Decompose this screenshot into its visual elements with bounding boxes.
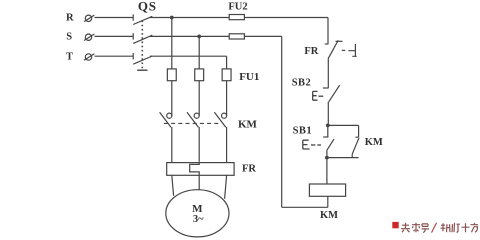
- contact KM aux label: [365, 137, 383, 148]
- watermark 头条号 / 雅帆十方: [401, 223, 478, 233]
- pushbutton SB1 upper terminal: [323, 125, 328, 137]
- wire KM aux bottom: [327, 157, 359, 159]
- junction dot R/L1: [170, 16, 174, 20]
- svg-text:T: T: [66, 51, 73, 62]
- wire L3 below FU1: [226, 81, 228, 116]
- motor M label: [192, 203, 203, 215]
- watermark logo square: [392, 222, 398, 228]
- fuse FU2 label: [228, 1, 247, 12]
- svg-text:KM: KM: [320, 210, 338, 221]
- thermal release dash: [342, 49, 345, 51]
- junction dot S/L2: [197, 35, 201, 39]
- svg-text:QS: QS: [138, 0, 157, 13]
- contactor KM main label: [238, 119, 258, 131]
- fuse FU2b: [229, 34, 244, 39]
- coil KM label: [320, 210, 338, 221]
- svg-text:FR: FR: [242, 164, 256, 175]
- wire SB1 bottom: [326, 151, 328, 158]
- svg-text:3~: 3~: [193, 214, 204, 225]
- node T: [66, 51, 73, 62]
- thermal overload FR label: [242, 164, 256, 175]
- fuse FU1a: [167, 69, 176, 81]
- wire phase S bus: [150, 35, 282, 37]
- fuse FU2a: [229, 15, 244, 20]
- contactor KM main contact 1: [160, 112, 172, 127]
- wire L1 to motor: [172, 175, 174, 196]
- switch QS pole R: [133, 14, 152, 24]
- contact KM aux blade: [352, 138, 359, 158]
- svg-text:KM: KM: [365, 137, 383, 148]
- wire S input: [95, 35, 133, 37]
- pushbutton SB1 label: [293, 125, 313, 136]
- fuse FU1c: [222, 69, 231, 81]
- wire L3 vertical: [226, 56, 228, 69]
- wire T input: [95, 55, 133, 57]
- node S: [66, 32, 72, 43]
- wire R input: [95, 17, 133, 19]
- wire coil bottom: [327, 196, 329, 207]
- switch QS pole S: [133, 33, 152, 43]
- wire control return vertical: [281, 36, 283, 207]
- pushbutton SB1 actuator E--: [303, 140, 321, 149]
- wire L1 below KM: [171, 127, 173, 163]
- wire L2 vertical: [198, 36, 200, 69]
- fuse FU1 label: [239, 71, 259, 83]
- svg-text:FU1: FU1: [239, 71, 259, 83]
- wire SB1 to coil: [326, 158, 328, 184]
- switch QS pole T: [133, 53, 152, 64]
- wire phase R bus: [150, 17, 328, 19]
- wire L1 vertical: [171, 18, 173, 69]
- pushbutton SB2 blade: [329, 85, 340, 102]
- pushbutton SB2 actuator E-: [313, 91, 324, 100]
- pushbutton SB2 label: [292, 78, 312, 89]
- wire control phase down from R: [325, 18, 329, 45]
- motor M: [166, 190, 229, 237]
- contact KM aux upper terminal: [356, 125, 359, 137]
- switch QS linkage: [137, 21, 147, 71]
- terminal symbol S: [84, 34, 94, 41]
- wire control return bottom: [282, 206, 328, 208]
- contactor KM main contact 2: [187, 112, 199, 127]
- svg-text:R: R: [66, 12, 74, 23]
- switch QS label: [138, 0, 157, 13]
- pushbutton SB1 blade: [327, 139, 334, 151]
- wire L2 below KM: [198, 127, 200, 162]
- wire L2 below FU1: [198, 81, 200, 116]
- thermal overload FR heater box: [167, 163, 234, 176]
- wire L1 below FU1: [171, 81, 173, 116]
- coil KM: [309, 184, 345, 196]
- wire FR to SB2: [323, 58, 329, 88]
- wire SB2 to SB1: [327, 102, 329, 126]
- junction dot SB1 top: [326, 124, 330, 128]
- node R: [66, 12, 74, 23]
- svg-text:SB1: SB1: [293, 125, 313, 136]
- svg-text:FR: FR: [304, 46, 318, 57]
- svg-text:FU2: FU2: [228, 1, 247, 12]
- fuse FU1b: [195, 69, 204, 81]
- wire L2 to motor: [198, 175, 200, 190]
- wire L3 to motor: [225, 175, 227, 199]
- terminal symbol R: [84, 15, 94, 22]
- contactor KM main contact 3: [214, 112, 226, 127]
- svg-text:SB2: SB2: [292, 78, 312, 89]
- svg-text:S: S: [66, 32, 72, 43]
- contactor KM linkage: [164, 122, 219, 124]
- wire phase T bus: [150, 55, 227, 57]
- contact FR label: [304, 46, 318, 57]
- thermal release symbol: [348, 44, 356, 57]
- thermal overload FR heater element: [190, 162, 200, 176]
- svg-text:KM: KM: [238, 119, 258, 131]
- wire KM aux top: [328, 124, 359, 126]
- terminal symbol T: [84, 54, 94, 61]
- junction dot SB1 bottom: [325, 156, 329, 160]
- motor 3~ label: [193, 214, 204, 225]
- contact FR (NC, thermal): [328, 40, 342, 58]
- wire L3 below KM: [226, 127, 228, 163]
